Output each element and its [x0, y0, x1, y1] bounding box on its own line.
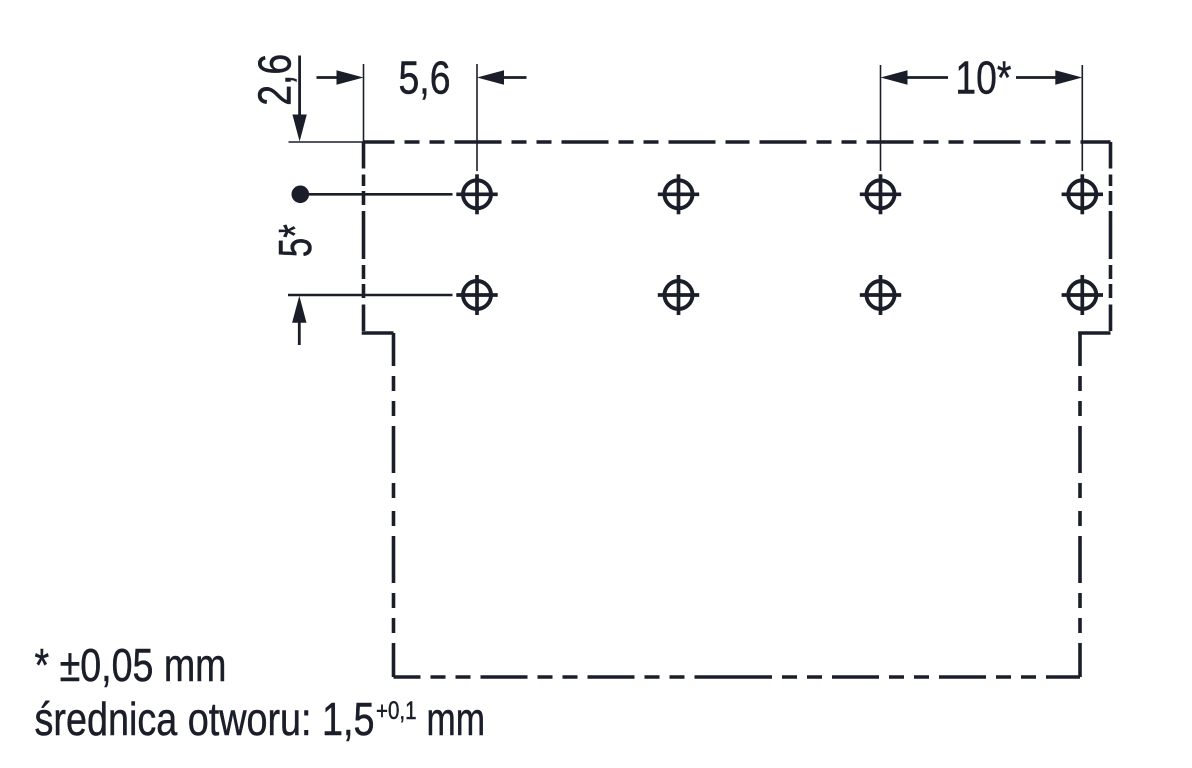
- hole row1 col2: [658, 174, 699, 214]
- outline bottom edge: [394, 675, 1081, 679]
- dimension 5* up arrow: [292, 296, 306, 345]
- hole row1 col3: [860, 174, 901, 214]
- hole row2 col1: [456, 275, 497, 315]
- extension line hole column 4: [1081, 65, 1083, 171]
- extension line top edge (horizontal left of corner): [289, 141, 364, 143]
- svg-text:średnica otworu: 1,5: średnica otworu: 1,5: [35, 693, 375, 745]
- extension line hole column 1: [476, 64, 478, 171]
- svg-text:mm: mm: [427, 693, 486, 745]
- extension line hole column 3: [880, 65, 882, 171]
- svg-text:* ±0,05 mm: * ±0,05 mm: [35, 639, 227, 691]
- dimension 10* right arrow: [1016, 70, 1082, 84]
- dimension 2,6 down arrow: [292, 56, 306, 142]
- outline right flange edge: [1109, 142, 1113, 333]
- hole row2 col4: [1062, 275, 1103, 315]
- svg-text:5,6: 5,6: [399, 52, 451, 104]
- outline right step: [1078, 331, 1110, 335]
- svg-text:2,6: 2,6: [249, 54, 301, 106]
- hole row1 col4: [1062, 174, 1103, 214]
- dimension 5,6 left arrow: [317, 70, 364, 84]
- dimension 5,6 right arrow: [477, 70, 527, 84]
- reference dot: [292, 186, 310, 204]
- svg-text:+0,1: +0,1: [376, 697, 417, 725]
- hole row2 col2: [658, 275, 699, 315]
- dimension 10* left arrow: [881, 70, 949, 84]
- outline left step: [362, 331, 394, 335]
- outline left flange edge: [362, 142, 366, 333]
- outline top edge: [364, 140, 1111, 144]
- hole row1 col1: [456, 174, 497, 214]
- hole row2 col3: [860, 275, 901, 315]
- outline left body edge: [392, 333, 396, 677]
- svg-text:5*: 5*: [269, 224, 321, 257]
- leader line row 2: [288, 294, 453, 297]
- leader line row 1: [300, 193, 453, 196]
- svg-text:10*: 10*: [955, 52, 1011, 104]
- outline right body edge: [1078, 333, 1082, 677]
- extension line left edge (vertical above top-left corner): [363, 64, 365, 142]
